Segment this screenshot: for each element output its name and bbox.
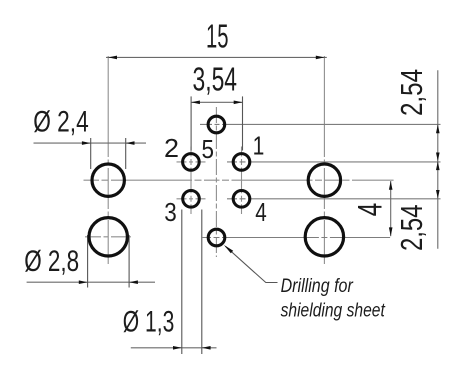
arrow Ø1,3 right (outside, pointing left): [202, 346, 211, 350]
svg-text:4: 4: [352, 203, 390, 217]
arrow Ø2,8 right (outside, pointing left): [129, 280, 138, 284]
extension line Ø2,4 left tangent (x=90.7): [90, 138, 92, 169]
crosshair shield hole horizontal + extension to 4-dim: [203, 237, 391, 239]
extension line Ø1,3 left tangent (x=181.8): [181, 210, 183, 355]
extension line Ø2,8 left tangent (x=87.6): [87, 235, 89, 288]
svg-text:2: 2: [164, 133, 179, 163]
crosshair pin5 horizontal + extension line to right dim: [200, 123, 441, 125]
centerline column right (x=324.4): [323, 56, 325, 264]
extension line 3,54 right (x=242.5): [242, 96, 244, 150]
svg-text:Ø 2,4: Ø 2,4: [33, 106, 88, 139]
centerline column middle pin5/shield (x=216.4): [215, 107, 217, 257]
svg-text:3: 3: [164, 197, 177, 227]
contact hole pin 5: [208, 116, 225, 133]
arrow 3,54 left: [191, 101, 200, 105]
arrow 4 top (tip up at y=181): [389, 181, 393, 190]
contact hole pin 1: [233, 154, 250, 171]
mounting hole bottom-left Ø2.8: [89, 218, 127, 256]
arrow Ø2,8 left (outside, pointing right): [79, 280, 88, 284]
arrow Ø2,4 right (outside, pointing left): [126, 141, 135, 145]
contact hole pin 3: [183, 191, 200, 208]
arrow 2,54 bottom span lower (tip down at y=198.8): [436, 190, 440, 199]
svg-text:3,54: 3,54: [193, 61, 238, 98]
dimension line 3,54 (y=102.3): [191, 101, 242, 103]
crosshair bottom-left hole horizontal: [85, 236, 131, 238]
svg-text:1: 1: [253, 131, 265, 161]
dimension line right vertical 2,54 chain (x=437.8): [437, 70, 439, 248]
svg-text:4: 4: [255, 197, 266, 227]
crosshair pin1 horizontal + extension line to right dim: [227, 161, 441, 163]
main horizontal centerline (y=180.2): [84, 179, 394, 181]
centerline column pin1/pin4 (x=241.5): [241, 147, 243, 215]
svg-text:shielding sheet: shielding sheet: [281, 299, 386, 321]
arrow 15 left: [108, 56, 117, 60]
arrow 2,54 bottom span upper (tip up at y=161.3): [436, 161, 440, 170]
leader arrowhead at shield hole: [224, 245, 233, 253]
arrow 15 right: [316, 56, 325, 60]
contact hole pin 2: [183, 154, 200, 171]
arrow Ø1,3 left (outside, pointing right): [173, 346, 182, 350]
arrow 2,54 top span lower (tip down at y=161.3): [436, 153, 440, 162]
centerline column pin2/pin3 (x=191): [190, 147, 192, 215]
crosshair pin3 horizontal: [177, 198, 206, 200]
svg-text:Ø 1,3: Ø 1,3: [123, 306, 175, 339]
extension line 3,54 left (x=191.1): [190, 96, 192, 150]
svg-text:2,54: 2,54: [394, 69, 429, 116]
arrow 4 bottom (tip down at y=236.2): [389, 227, 393, 236]
centerline column left (x=108.2): [107, 56, 109, 264]
svg-text:5: 5: [202, 134, 215, 164]
arrow Ø2,4 left (outside, pointing right): [82, 141, 91, 145]
extension line Ø2,8 right tangent (x=129.1): [128, 235, 130, 288]
mounting hole bottom-right Ø2.8: [305, 218, 343, 256]
extension line Ø2,4 right tangent (x=125.7): [125, 138, 127, 169]
crosshair pin2 horizontal: [177, 161, 206, 163]
dimension line Ø2,8 (y=282.2): [27, 281, 155, 283]
svg-text:Drilling for: Drilling for: [281, 275, 354, 297]
dimension line 15 (y=57.4): [106, 56, 327, 58]
arrow 2,54 top span upper (tip up at y=124.4): [436, 124, 440, 133]
dimension line 4 (x=390.7): [390, 181, 392, 236]
mounting hole top-left Ø2.4: [92, 164, 124, 196]
extension line Ø1,3 right tangent (x=201.8): [201, 210, 203, 355]
svg-text:Ø 2,8: Ø 2,8: [24, 245, 79, 278]
arrow 3,54 right: [234, 101, 243, 105]
dimension line Ø1,3 (y=347.8): [131, 347, 217, 349]
leader line for shielding note: [226, 246, 278, 282]
svg-text:15: 15: [206, 18, 229, 55]
dimension line Ø2,4 (y=143.1): [34, 142, 147, 144]
mounting hole top-right Ø2.4: [308, 164, 340, 196]
svg-text:2,54: 2,54: [394, 205, 429, 252]
crosshair pin4 horizontal + extension line to right dim: [227, 198, 441, 200]
shield drilling hole: [208, 229, 225, 246]
contact hole pin 4: [233, 191, 250, 208]
